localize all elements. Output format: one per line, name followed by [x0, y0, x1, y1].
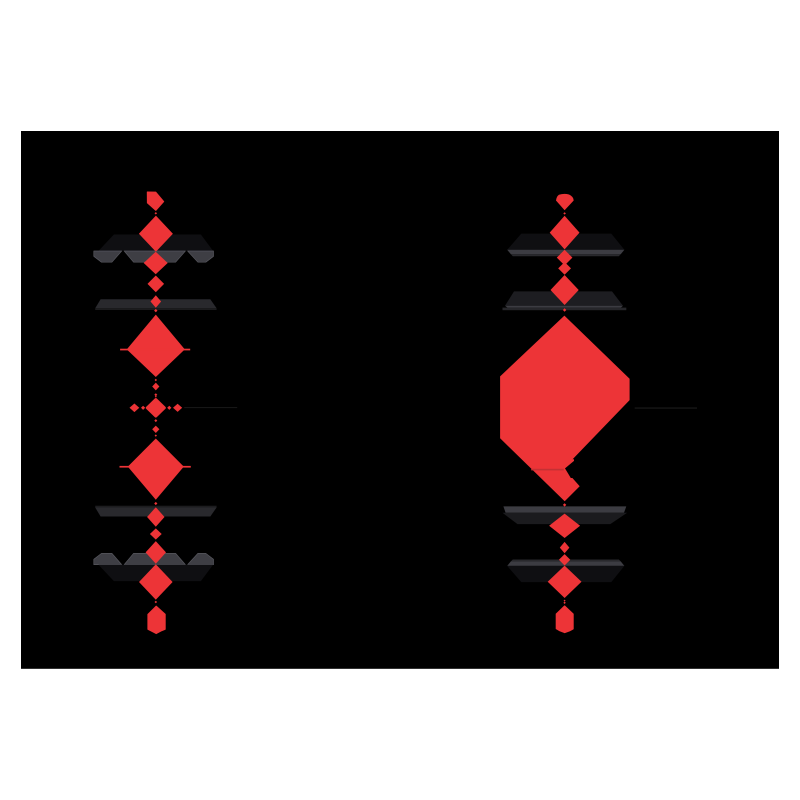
left stack: bar4 gray tooth middle [124, 553, 185, 564]
right stack: dot [564, 600, 566, 602]
right stack: dot below blob [563, 503, 566, 506]
left stack: bar2 trapezoid [95, 299, 216, 308]
right stack: band4 darker substrip [511, 560, 621, 562]
left stack: diamond below bar4 [139, 564, 173, 599]
right stack: diamond A [550, 216, 580, 250]
right stack: band2 dark trapezoid [505, 291, 623, 305]
right stack: bottom shield marker [556, 606, 573, 633]
left stack: dot [155, 434, 157, 436]
right stack: thin dark line to right of blob [635, 408, 697, 409]
left stack: diamond above bar4 [146, 541, 166, 564]
right stack: diamond [559, 554, 570, 565]
right stack: diamond below band3 [549, 514, 580, 538]
right stack: band3 dark trapezoid [503, 513, 628, 524]
left stack: D1 median tab [120, 349, 190, 351]
left stack: tiny dot [155, 212, 158, 214]
left stack: diamond d3 [148, 276, 165, 293]
cluster: far-left small diamond [130, 404, 140, 413]
right stack: band3 gray strip [503, 506, 626, 512]
right stack: diamond C [558, 262, 571, 275]
left stack: bar4 gray tooth left [94, 553, 122, 564]
left stack: big diamond D2 [128, 439, 184, 500]
right stack: diamond [560, 542, 570, 553]
right stack: band1 darker substrip [511, 254, 621, 256]
right stack: band4 dark trapezoid [507, 566, 624, 582]
left stack: diamond d2 [144, 252, 168, 275]
left stack: diamond below bar3 [147, 507, 164, 527]
left stack: dot below D2 [154, 502, 157, 505]
right stack: tiny dot [563, 212, 566, 214]
left stack: dot below D1 [155, 379, 157, 381]
right stack: band1 dark trapezoid [507, 234, 624, 250]
cluster: thin dark line to right [184, 407, 237, 408]
right stack: band2 gray strip [505, 306, 623, 308]
left stack: bar3 trapezoid [95, 508, 216, 517]
left stack: bar4 dark trapezoid [99, 565, 214, 581]
left stack: bar3 dark top line [95, 506, 216, 508]
right stack: top fan marker [556, 194, 574, 210]
left stack: bar1 gray tooth middle [124, 251, 185, 262]
cluster: far-right small diamond [173, 404, 182, 412]
left stack: bar1 gray tooth right [188, 251, 214, 262]
right stack: blob darker red median line [531, 469, 564, 471]
plot area (black panel) [21, 131, 779, 669]
left stack: small diamond [152, 383, 159, 391]
right stack: diamond D [551, 275, 579, 305]
cluster: center diamond [147, 400, 164, 416]
cluster: right tiny diamond [167, 406, 171, 410]
right stack: huge blob polygon [500, 316, 629, 502]
left stack: diamond d4 [151, 295, 162, 307]
left stack: tiny diamond d5 [154, 309, 157, 312]
right stack: dot [563, 602, 565, 604]
left stack: dot [154, 393, 157, 396]
left stack: small diamond [152, 426, 159, 433]
left stack: dot [155, 601, 158, 604]
left stack: bar4 gray tooth right [188, 553, 214, 564]
left stack: top pentagon marker [147, 192, 163, 210]
right stack: band1 gray strip [507, 250, 624, 255]
cluster: left tiny diamond [141, 406, 145, 410]
left stack: bar1 dark trapezoid [99, 235, 214, 251]
left stack: D2 median tab [120, 466, 191, 468]
left stack: dot below cluster [154, 419, 157, 422]
left stack: big diamond D1 [127, 315, 185, 377]
left stack: bar2 dark bottom line [95, 308, 216, 310]
left stack: bar1 gray tooth left [94, 251, 122, 262]
left stack: diamond d1 [139, 216, 173, 252]
right stack: band2 darker substrip [503, 308, 627, 311]
right stack: diamond below band4 [548, 566, 582, 598]
left stack: diamond [150, 528, 162, 539]
left stack: bottom shield marker [148, 606, 165, 634]
left stack: dot above cluster [155, 396, 157, 398]
right stack: tiny diamond [563, 308, 566, 311]
right stack: diamond B [557, 250, 573, 266]
right stack: band4 gray strip [507, 561, 624, 566]
